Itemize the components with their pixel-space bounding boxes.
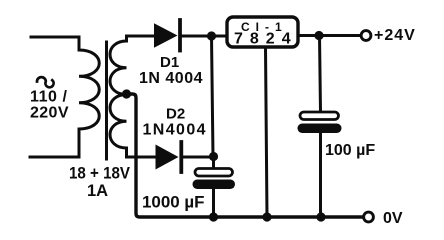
label: 1N4004 (D2) — [143, 122, 207, 139]
svg-text:110 /: 110 / — [30, 89, 68, 106]
svg-text:0V: 0V — [383, 210, 403, 227]
wire: AC input bottom lead — [30, 156, 77, 159]
label: D2 — [166, 106, 185, 123]
label: +24V — [374, 27, 416, 44]
svg-text:1A: 1A — [87, 182, 108, 200]
label: D1 — [160, 54, 179, 71]
diode D1 — [154, 20, 227, 51]
terminal: +24V output — [361, 31, 371, 41]
label: 100uF — [325, 142, 375, 159]
capacitor C2 100uF — [298, 36, 342, 218]
transformer T1 primary winding — [77, 37, 99, 157]
node: regulator ground to rail junction — [262, 212, 271, 221]
node: D2 cathode junction — [209, 152, 218, 161]
wire: D1 cathode node down to D2 cathode node — [212, 36, 214, 157]
svg-text:1N4004: 1N4004 — [143, 122, 207, 139]
label: 1000uF — [142, 194, 205, 212]
node: D1 cathode junction — [207, 31, 216, 40]
svg-text:18 + 18V: 18 + 18V — [69, 165, 130, 183]
wire: regulator output to +24V terminal — [298, 34, 360, 37]
node: C2 to 0V rail junction — [316, 212, 325, 221]
transformer T1 core — [105, 42, 108, 159]
label: 1N4004 (D1) — [139, 70, 203, 87]
svg-text:100 µF: 100 µF — [325, 142, 375, 159]
svg-text:7824: 7824 — [234, 31, 298, 48]
node: output junction to C2 — [314, 31, 323, 40]
terminal: 0V output — [364, 212, 374, 222]
label: 18+18V 1A — [69, 165, 130, 201]
label: 7824 — [234, 31, 298, 48]
node: center tap junction — [122, 89, 131, 98]
svg-text:+24V: +24V — [374, 27, 416, 44]
wire: AC input top lead — [31, 36, 77, 39]
svg-text:1000 µF: 1000 µF — [142, 194, 205, 212]
svg-text:1N 4004: 1N 4004 — [139, 70, 203, 87]
label: 0V — [383, 210, 403, 227]
wire: center tap to 0V rail — [127, 94, 363, 217]
regulator U1 CI-1 7824 box — [227, 17, 298, 47]
label: CI-1 — [241, 20, 288, 34]
diode D2 — [156, 142, 214, 172]
svg-text:D2: D2 — [166, 106, 185, 123]
transformer T1 secondary winding — [110, 36, 154, 157]
svg-text:D1: D1 — [160, 54, 179, 71]
capacitor C1 1000uF — [193, 157, 236, 218]
AC source symbol — [37, 77, 54, 87]
label: 110/220V — [30, 89, 69, 122]
node: C1 to 0V rail junction — [209, 212, 218, 221]
svg-text:220V: 220V — [30, 105, 69, 122]
wire: regulator ground pin — [266, 47, 268, 217]
